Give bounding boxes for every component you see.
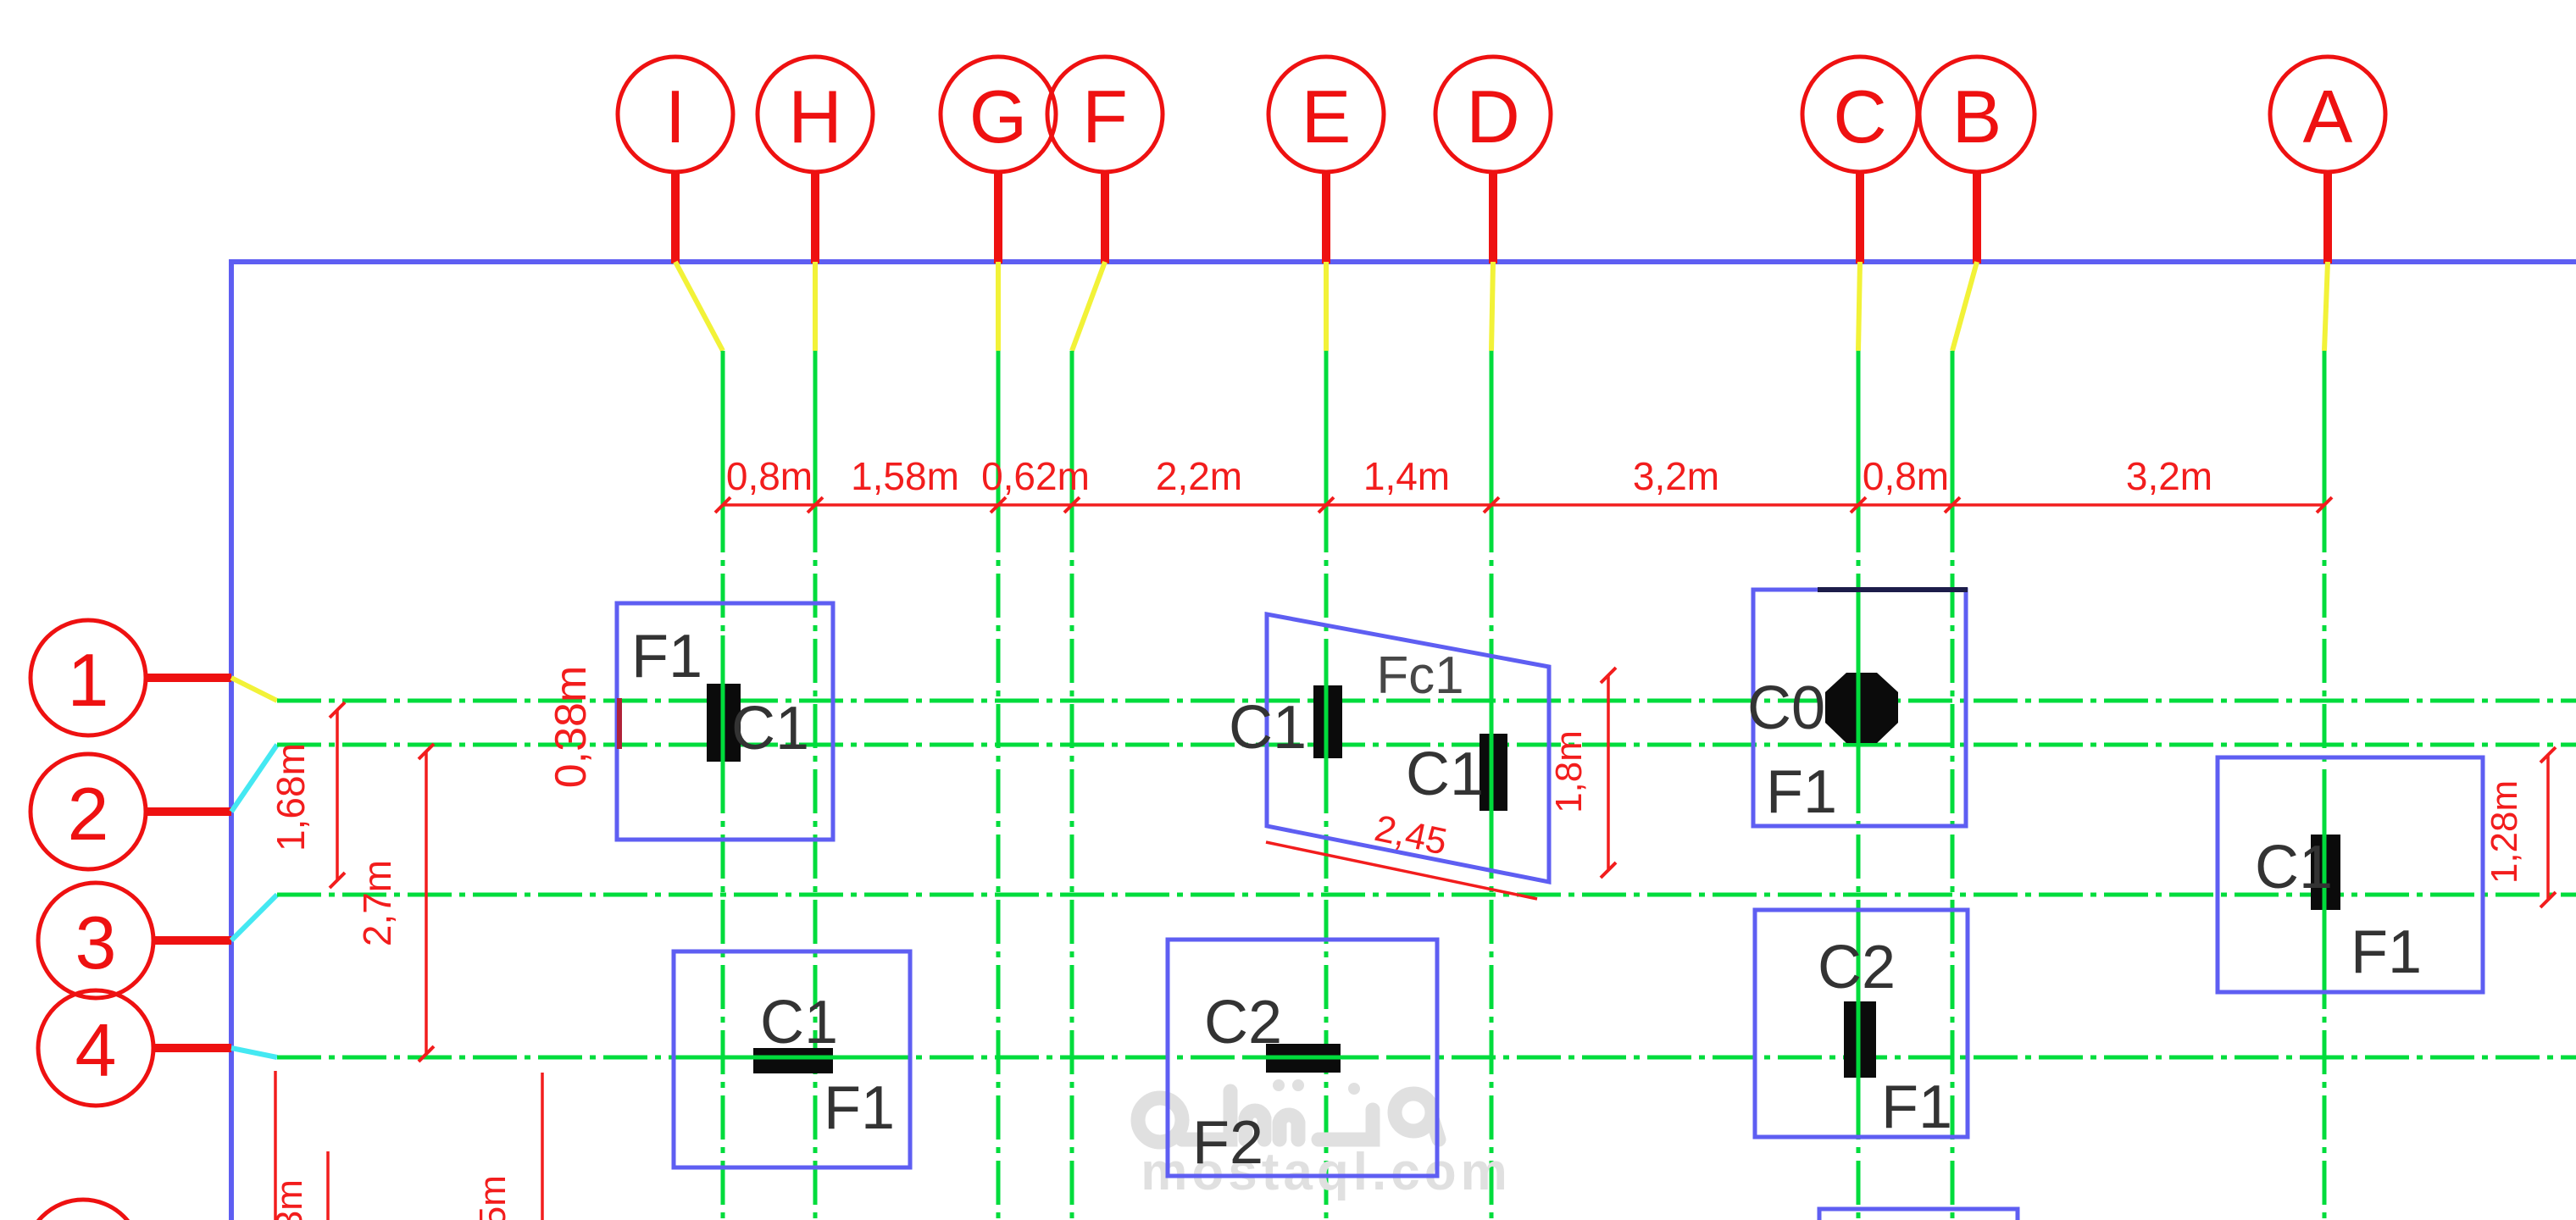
dim tick at x=1760 <box>1484 497 1499 513</box>
svg-text:C1: C1 <box>760 989 838 1056</box>
grid bubble B <box>1919 57 2035 172</box>
svg-text:1,5m: 1,5m <box>472 1175 514 1220</box>
dark top edge of footing F1 (C0) <box>1818 587 1968 592</box>
dimension line (horizontal chain) <box>723 503 2324 507</box>
grid bubble 2 <box>31 754 146 869</box>
grid line I through column (solid) <box>721 635 725 813</box>
svg-text:C: C <box>1833 75 1887 158</box>
svg-text:C0: C0 <box>1747 674 1825 742</box>
dim 1,8m line <box>1601 668 1616 878</box>
grid line 1 (green dash-dot) <box>277 699 2576 703</box>
dim tick at x=1565 <box>1319 497 1334 513</box>
svg-text:C1: C1 <box>731 695 809 762</box>
column C1 in footing F1 right <box>2311 835 2340 910</box>
svg-text:F2: F2 <box>1192 1109 1263 1177</box>
grid stem E <box>1322 172 1330 263</box>
grid line H (green dash-dot) <box>813 351 818 1220</box>
column C2 in footing F1 (C/4) <box>1844 1001 1876 1078</box>
border top line <box>229 259 2576 264</box>
grid line C through C2 (solid) <box>1857 932 1861 1118</box>
svg-text:0,62m: 0,62m <box>981 454 1090 498</box>
grid stem A <box>2323 172 2332 263</box>
grid line G (green dash-dot) <box>997 351 1001 1220</box>
dim tick at x=1265 <box>1064 497 1080 513</box>
grid bubble G <box>941 57 1056 172</box>
grid line D (green dash-dot) <box>1490 351 1494 1220</box>
svg-text:F1: F1 <box>824 1074 895 1142</box>
connector B (yellow) <box>1952 262 1977 351</box>
grid bubble I <box>618 57 733 172</box>
svg-text:1,3m: 1,3m <box>269 1179 310 1220</box>
connector G (yellow) <box>996 262 1001 351</box>
svg-text:F1: F1 <box>1766 758 1837 826</box>
dim 1,28m line <box>2540 747 2556 907</box>
grid stem C <box>1856 172 1864 263</box>
bottom dim extension lines <box>274 1071 277 1220</box>
grid line C (green dash-dot) <box>1857 351 1861 1220</box>
connector A (yellow) <box>2324 262 2328 351</box>
grid stem D <box>1489 172 1497 263</box>
grid line 3 (green dash-dot) <box>277 893 2576 897</box>
svg-text:0,38m: 0,38m <box>547 666 596 789</box>
svg-text:H: H <box>788 75 842 158</box>
dim 0,38m line <box>617 698 622 749</box>
connector D (yellow) <box>1491 262 1493 351</box>
svg-text:D: D <box>1466 75 1520 158</box>
dim tick at x=962 <box>808 497 823 513</box>
grid line I (green dash-dot) <box>721 351 725 1220</box>
connector F (yellow) <box>1072 262 1105 351</box>
connector 3 <box>231 895 277 940</box>
svg-text:A: A <box>2303 75 2353 158</box>
svg-text:1: 1 <box>68 638 109 722</box>
column C1 in footing F1 bottom (horizontal) <box>753 1048 833 1073</box>
grid line D through Fc1 column (solid) <box>1490 678 1494 856</box>
grid bubble 1 <box>31 620 146 735</box>
grid stem H <box>811 172 819 263</box>
watermark logo (mostaql) <box>1138 1079 1439 1142</box>
footing F2 (grid E/4) <box>1168 940 1437 1176</box>
svg-text:F: F <box>1082 75 1128 158</box>
column C1 left in Fc1 <box>1313 685 1342 758</box>
svg-text:1,68m: 1,68m <box>269 743 313 851</box>
grid line E through Fc1 column (solid) <box>1324 644 1329 805</box>
grid line F (green dash-dot) <box>1070 351 1074 1220</box>
grid bubble 3 <box>38 883 153 998</box>
dim 2,7m line <box>419 744 434 1062</box>
svg-text:1,8m: 1,8m <box>1548 730 1590 813</box>
svg-text:F1: F1 <box>1881 1073 1952 1141</box>
svg-text:4: 4 <box>75 1008 117 1092</box>
grid stem 2 <box>146 807 231 816</box>
grid bubble 5 (partial at bottom edge) <box>25 1200 141 1220</box>
column C1 right in Fc1 <box>1480 734 1507 811</box>
grid bubble C <box>1802 57 1918 172</box>
connector 1 <box>231 678 277 701</box>
svg-text:2,45: 2,45 <box>1371 807 1451 863</box>
connector 2 <box>231 745 277 812</box>
svg-text:1,58m: 1,58m <box>851 454 959 498</box>
grid bubble E <box>1269 57 1384 172</box>
dim 1,68m line <box>330 702 345 888</box>
svg-text:C1: C1 <box>1229 694 1307 762</box>
dim tick at x=1178 <box>991 497 1006 513</box>
column C0 (octagon) <box>1825 673 1898 743</box>
grid bubble A <box>2270 57 2385 172</box>
svg-text:C1: C1 <box>1406 740 1484 808</box>
connector I (yellow) <box>675 262 723 351</box>
footing F1 (top, grid I/1) <box>617 603 833 840</box>
svg-text:F1: F1 <box>2351 918 2422 986</box>
svg-text:3,2m: 3,2m <box>1633 454 1719 498</box>
connector 4 <box>231 1048 277 1057</box>
grid stem 1 <box>146 674 231 682</box>
svg-text:2: 2 <box>68 772 109 856</box>
grid stem F <box>1101 172 1109 263</box>
grid bubble D <box>1435 57 1551 172</box>
grid row 4 through columns (solid) <box>703 1056 890 1060</box>
svg-text:C2: C2 <box>1818 934 1896 1001</box>
footing F1 (grid C/1, with C0) <box>1753 590 1966 826</box>
connector E (yellow) <box>1324 262 1329 351</box>
footing F1 (grid A/3) <box>2218 757 2483 992</box>
grid stem I <box>671 172 680 263</box>
grid line 2 (green dash-dot) <box>277 743 2576 747</box>
dim 2,45 line <box>1266 842 1537 899</box>
connector C (yellow) <box>1858 262 1860 351</box>
svg-text:2,7m: 2,7m <box>355 860 399 946</box>
dim tick at x=2743 <box>2317 497 2332 513</box>
svg-text:F1: F1 <box>631 623 702 690</box>
svg-text:C1: C1 <box>2255 834 2333 901</box>
svg-text:1,4m: 1,4m <box>1363 454 1450 498</box>
svg-text:1,28m: 1,28m <box>2484 780 2525 884</box>
footing Fc1 (trapezoid, grids E-D) <box>1267 614 1549 882</box>
grid line B (green dash-dot) <box>1951 351 1955 1220</box>
svg-text:0,8m: 0,8m <box>1863 454 1949 498</box>
svg-text:C2: C2 <box>1204 989 1282 1056</box>
grid stem B <box>1973 172 1981 263</box>
svg-text:I: I <box>665 75 686 158</box>
svg-text:3,2m: 3,2m <box>2126 454 2212 498</box>
svg-text:3: 3 <box>75 901 117 984</box>
grid line A through C1 (solid) <box>2323 779 2327 974</box>
svg-text:0,8m: 0,8m <box>726 454 813 498</box>
dim tick at x=853 <box>715 497 730 513</box>
grid line C through C0 (solid) <box>1857 610 1861 805</box>
column C1 in footing F1 top <box>707 684 741 762</box>
grid bubble F <box>1047 57 1163 172</box>
dim tick at x=2193 <box>1851 497 1866 513</box>
svg-text:2,2m: 2,2m <box>1156 454 1242 498</box>
grid bubble H <box>758 57 873 172</box>
footing (partial, bottom) <box>1819 1209 2018 1220</box>
grid stem 3 <box>153 936 231 945</box>
grid line A (green dash-dot) <box>2323 351 2327 1220</box>
border left line <box>229 259 234 1220</box>
svg-text:Fc1: Fc1 <box>1376 646 1463 705</box>
footing F1 (bottom, grid H/4) <box>674 951 910 1167</box>
grid bubble 4 <box>38 990 153 1106</box>
grid stem G <box>994 172 1002 263</box>
svg-text:G: G <box>969 75 1027 158</box>
grid line E (green dash-dot) <box>1324 351 1329 1220</box>
grid line 4 (green dash-dot) <box>277 1056 2576 1060</box>
connector H (yellow) <box>813 262 818 351</box>
grid stem 4 <box>153 1044 231 1052</box>
column C2 in footing F2 (horizontal) <box>1266 1044 1341 1073</box>
svg-text:E: E <box>1302 75 1352 158</box>
footing F1 (grid C/4) <box>1755 910 1968 1137</box>
dim tick at x=2304 <box>1945 497 1960 513</box>
svg-text:B: B <box>1952 75 2002 158</box>
